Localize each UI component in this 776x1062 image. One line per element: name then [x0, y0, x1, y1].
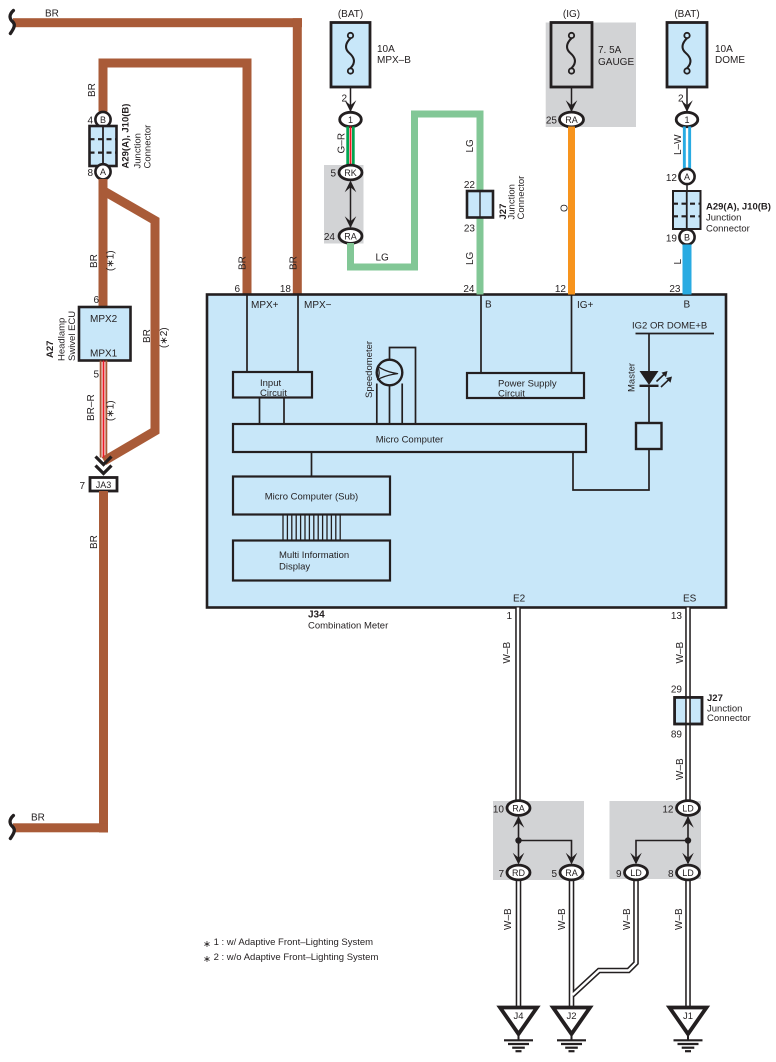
oval connector LD pin 9 — [625, 865, 648, 880]
svg-text:W–B: W–B — [674, 908, 685, 930]
A27 Headlamp Swivel ECU box — [79, 307, 131, 361]
svg-text:Connector: Connector — [516, 176, 527, 220]
oval connector LD pin 8 — [677, 865, 700, 880]
svg-text:1: 1 — [348, 115, 353, 125]
gray box left (RA/RD/RA) — [493, 801, 584, 880]
svg-text:9: 9 — [616, 869, 622, 880]
junction connector A29(A) J10(B) left: circle B — [95, 112, 110, 127]
wires input circuit to micro computer — [259, 398, 261, 425]
svg-text:LG: LG — [465, 251, 476, 265]
svg-text:23: 23 — [669, 284, 681, 295]
svg-text:10A: 10A — [715, 44, 733, 55]
svg-text:Speedometer: Speedometer — [364, 341, 375, 398]
svg-text:A: A — [100, 167, 106, 177]
svg-text:A: A — [684, 172, 690, 182]
wire BR bottom horizontal — [13, 823, 108, 832]
junction connector J27 top — [467, 191, 493, 218]
svg-text:B: B — [684, 232, 690, 242]
svg-text:L: L — [673, 259, 684, 265]
svg-text:RD: RD — [512, 868, 525, 878]
svg-text:BR: BR — [238, 256, 249, 270]
svg-text:W–B: W–B — [503, 908, 514, 930]
oval connector RA pin 25 — [560, 112, 584, 127]
wire L (blue) — [683, 245, 692, 295]
wire BR circle A down to A27 pin 6 — [99, 179, 108, 307]
svg-text:RA: RA — [565, 868, 578, 878]
LED Master (diode) — [640, 371, 659, 385]
svg-text:A29(A), J10(B): A29(A), J10(B) — [121, 104, 132, 169]
svg-text:10: 10 — [493, 805, 505, 816]
wire BR JA3 down — [99, 491, 108, 833]
speedometer gauge circle — [377, 360, 403, 386]
svg-text:B: B — [485, 300, 492, 311]
internal wire pin6 to input circuit — [246, 296, 248, 373]
wire circle A to box — [686, 184, 688, 191]
svg-text:RA: RA — [512, 804, 525, 814]
wire BR vertical to meter pin 18 (MPX-) — [293, 18, 302, 294]
oval connector RD pin 7 — [507, 865, 530, 880]
svg-text:5: 5 — [93, 370, 99, 381]
svg-text:7. 5A: 7. 5A — [598, 45, 622, 56]
svg-text:(IG): (IG) — [563, 9, 580, 20]
wire fuse to connector 1 — [686, 87, 688, 112]
speedometer wires down — [376, 384, 378, 425]
branch wires — [519, 841, 572, 864]
svg-text:∗ 2 : w/o Adaptive Front–Light: ∗ 2 : w/o Adaptive Front–Lighting System — [203, 952, 378, 965]
svg-text:BR: BR — [89, 254, 100, 268]
oval connector 1 (dome) — [676, 112, 698, 126]
svg-text:JA3: JA3 — [96, 480, 112, 490]
ground J2 — [553, 1008, 590, 1035]
wire LED to resistor box — [648, 387, 650, 423]
svg-text:LD: LD — [682, 804, 694, 814]
svg-text:23: 23 — [464, 224, 476, 235]
svg-text:13: 13 — [671, 611, 683, 622]
svg-text:19: 19 — [666, 234, 678, 245]
net line IG2 OR DOME+B — [636, 333, 715, 335]
chevron junction arrows — [96, 457, 112, 465]
svg-text:MPX−: MPX− — [304, 300, 332, 311]
svg-text:7: 7 — [498, 869, 504, 880]
gray box right (LD/LD/LD) — [610, 801, 702, 879]
svg-text:Display: Display — [279, 562, 310, 573]
arrow up + wire to dot (right) — [687, 817, 689, 841]
wire RK to RA with arrows — [350, 182, 352, 227]
wire LG (light green) — [351, 114, 481, 295]
svg-text:BR–R: BR–R — [86, 394, 97, 421]
svg-text:MPX1: MPX1 — [90, 349, 118, 360]
JA3 box — [90, 478, 117, 492]
svg-text:O: O — [560, 204, 571, 212]
svg-text:ES: ES — [683, 594, 697, 605]
svg-text:25: 25 — [546, 116, 558, 127]
junction connector A29(A) J10(B) left: body — [90, 126, 117, 166]
svg-text:12: 12 — [662, 805, 674, 816]
wire BR vertical down to circle B — [99, 59, 108, 112]
svg-text:W–B: W–B — [622, 908, 633, 930]
wire resistor to micro computer — [573, 449, 649, 490]
speedometer bracket wire — [390, 348, 416, 425]
svg-text:(∗1): (∗1) — [106, 250, 117, 271]
junction connector A29(A) J10(B) left: circle A — [95, 164, 110, 179]
svg-text:J2: J2 — [566, 1011, 576, 1022]
svg-text:10A: 10A — [377, 44, 395, 55]
combination meter J34 box — [207, 295, 726, 608]
internal wire pin18 to input circuit — [297, 296, 299, 373]
junction connector A29(A) J10(B) right: circle B — [679, 229, 694, 244]
hatch bus lines — [283, 515, 340, 541]
svg-text:Combination Meter: Combination Meter — [308, 621, 388, 632]
svg-text:Master: Master — [627, 363, 638, 392]
wire BR top horizontal (from left continuation) — [13, 18, 302, 27]
power supply circuit box — [467, 373, 584, 398]
svg-text:RA: RA — [565, 115, 578, 125]
svg-text:Connector: Connector — [707, 713, 751, 724]
wire G-R striped — [346, 127, 349, 167]
fuse 7.5A GAUGE box — [551, 23, 592, 88]
svg-text:BR: BR — [142, 329, 153, 343]
svg-text:1: 1 — [506, 611, 512, 622]
svg-text:Micro Computer: Micro Computer — [376, 435, 444, 446]
svg-text:J1: J1 — [683, 1011, 693, 1022]
svg-text:GAUGE: GAUGE — [598, 57, 634, 68]
W-B wire white cores — [518, 608, 688, 1008]
gray box RK/RA — [324, 165, 364, 244]
svg-text:Multi Information: Multi Information — [279, 550, 349, 561]
svg-text:1: 1 — [684, 115, 689, 125]
oval connector RK pin 5 — [339, 165, 362, 180]
svg-text:BR: BR — [89, 535, 100, 549]
svg-text:J4: J4 — [513, 1011, 523, 1022]
input circuit box — [233, 372, 312, 398]
wire micro computer to sub — [311, 452, 313, 477]
svg-text:12: 12 — [666, 173, 678, 184]
speedometer needle — [378, 366, 398, 379]
svg-text:5: 5 — [330, 169, 336, 180]
wire BR-R striped (A27 pin5 down to chevron) — [100, 361, 102, 458]
svg-text:(∗1): (∗1) — [106, 400, 117, 421]
svg-text:E2: E2 — [513, 594, 526, 605]
svg-text:12: 12 — [555, 284, 567, 295]
svg-text:B: B — [684, 300, 691, 311]
svg-text:8: 8 — [668, 869, 674, 880]
wire fuse to connector 1 — [350, 87, 352, 112]
svg-text:24: 24 — [463, 284, 475, 295]
wire O (orange) — [568, 127, 575, 295]
svg-text:LD: LD — [682, 868, 694, 878]
svg-text:22: 22 — [464, 180, 476, 191]
svg-text:BR: BR — [45, 9, 59, 20]
wire fuse to RA — [571, 87, 573, 112]
internal wire pin12 to power supply — [571, 296, 573, 374]
oval connector RA pin 24 — [339, 229, 362, 244]
oval connector RA pin 10 — [507, 801, 530, 816]
ground J1 — [670, 1008, 707, 1035]
wire BR vertical to meter pin 6 (MPX+) — [243, 59, 252, 295]
svg-text:B: B — [100, 115, 106, 125]
multi information display box — [233, 541, 390, 581]
svg-text:RA: RA — [344, 232, 357, 242]
svg-text:J27: J27 — [707, 693, 723, 704]
junction dot — [515, 837, 521, 843]
ground J4 — [500, 1008, 537, 1035]
svg-text:MPX+: MPX+ — [251, 300, 279, 311]
svg-text:(BAT): (BAT) — [674, 9, 699, 20]
junction connector A29(A) J10(B) right: circle A — [679, 169, 694, 184]
svg-text:Swivel ECU: Swivel ECU — [67, 311, 78, 361]
junction dot right — [685, 837, 691, 843]
micro computer sub box — [233, 477, 390, 515]
wire BR branch (*2) diagonal and vertical — [103, 191, 155, 462]
svg-text:Headlamp: Headlamp — [57, 318, 68, 361]
svg-text:A27: A27 — [45, 341, 56, 358]
junction connector J27 bottom border (over wire) — [675, 697, 702, 724]
svg-text:(∗2): (∗2) — [159, 327, 170, 348]
svg-text:BR: BR — [289, 256, 300, 270]
svg-text:J34: J34 — [308, 610, 325, 621]
svg-text:6: 6 — [234, 284, 240, 295]
svg-text:Circuit: Circuit — [498, 389, 525, 400]
svg-text:W–B: W–B — [675, 642, 686, 664]
LED emission arrows — [657, 373, 671, 388]
svg-text:BR: BR — [87, 83, 98, 97]
svg-text:LG: LG — [465, 139, 476, 153]
svg-text:A29(A), J10(B): A29(A), J10(B) — [706, 202, 771, 213]
svg-text:W–B: W–B — [675, 758, 686, 780]
svg-text:DOME: DOME — [715, 55, 745, 66]
svg-text:G–R: G–R — [337, 133, 348, 154]
svg-text:8: 8 — [87, 168, 93, 179]
svg-text:W–B: W–B — [502, 642, 513, 664]
svg-text:7: 7 — [79, 481, 85, 492]
continuation squiggle bottom-left — [10, 816, 14, 839]
svg-text:W–B: W–B — [557, 908, 568, 930]
arrowhead down — [345, 100, 357, 112]
svg-text:5: 5 — [551, 869, 557, 880]
svg-text:IG+: IG+ — [577, 300, 594, 311]
arrows down — [513, 853, 525, 865]
continuation squiggle top-left — [10, 11, 14, 34]
svg-text:Junction: Junction — [706, 213, 741, 224]
wire net to LED — [648, 334, 650, 372]
junction connector A29(A) J10(B) right: body — [673, 191, 701, 229]
arrows down right — [630, 853, 642, 865]
oval connector 1 — [340, 112, 362, 126]
junction connector J27 bottom body — [675, 697, 702, 724]
svg-text:∗ 1 : w/ Adaptive Front–Lighti: ∗ 1 : w/ Adaptive Front–Lighting System — [203, 937, 373, 950]
svg-text:Circuit: Circuit — [260, 388, 287, 399]
svg-text:Micro Computer (Sub): Micro Computer (Sub) — [265, 492, 358, 503]
W-B wire E2 to RA10 (black outer) — [518, 608, 688, 1008]
svg-text:L–W: L–W — [673, 134, 684, 155]
arrow up + wire to dot — [518, 817, 520, 841]
svg-text:29: 29 — [671, 685, 683, 696]
fuse 7.5A GAUGE (IG) gray box — [546, 23, 636, 128]
oval connector LD pin 12 — [677, 801, 700, 816]
svg-text:BR: BR — [31, 813, 45, 824]
wire L-W striped — [683, 127, 686, 170]
svg-text:RK: RK — [344, 168, 357, 178]
arrowhead down — [566, 100, 578, 112]
svg-text:18: 18 — [280, 284, 292, 295]
wire BR horizontal (junction B to pin 6 riser) — [99, 59, 252, 68]
svg-text:MPX–B: MPX–B — [377, 55, 411, 66]
micro computer box — [233, 424, 586, 452]
svg-text:(BAT): (BAT) — [338, 9, 363, 20]
resistor box — [636, 423, 662, 449]
svg-text:89: 89 — [671, 730, 683, 741]
svg-text:IG2 OR DOME+B: IG2 OR DOME+B — [632, 321, 707, 332]
svg-text:LD: LD — [630, 868, 642, 878]
svg-text:LG: LG — [376, 253, 390, 264]
svg-text:Connector: Connector — [143, 125, 154, 169]
svg-text:6: 6 — [93, 295, 99, 306]
internal wire pin24 to power supply — [480, 296, 482, 374]
branch wires right — [636, 841, 688, 864]
svg-text:24: 24 — [324, 232, 336, 243]
oval connector RA pin 5 — [560, 865, 583, 880]
svg-text:MPX2: MPX2 — [90, 314, 118, 325]
svg-text:Connector: Connector — [706, 224, 750, 235]
